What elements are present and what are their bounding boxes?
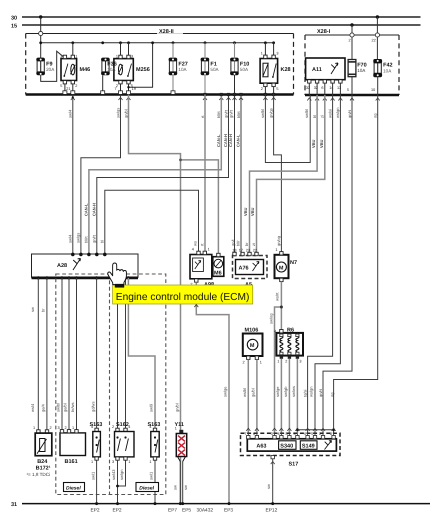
wires Y11 to EP7/EP5 — [179, 462, 181, 504]
svg-text:21: 21 — [66, 87, 70, 91]
fuse F36 — [102, 60, 109, 73]
svg-text:6: 6 — [253, 432, 255, 436]
wire K28 pin5 to N7 — [274, 95, 282, 252]
svg-text:31: 31 — [11, 502, 17, 508]
relay M256 — [114, 59, 133, 81]
svg-text:ws/gn: ws/gn — [335, 108, 340, 118]
svg-text:A28: A28 — [57, 263, 67, 269]
heater coil at 289.4 — [288, 336, 291, 352]
svg-text:sw/bl: sw/bl — [304, 109, 309, 118]
glow plug block S17 outer — [241, 433, 341, 455]
S17 pin 8 — [288, 436, 291, 439]
wire to S163b pin4 (jog) — [128, 278, 155, 432]
svg-text:3: 3 — [299, 360, 301, 364]
wire F36 out to edge — [102, 75, 104, 94]
svg-text:3: 3 — [58, 426, 60, 430]
svg-text:7: 7 — [244, 432, 246, 436]
svg-text:6: 6 — [294, 432, 296, 436]
svg-text:gn/rt: gn/rt — [92, 234, 97, 243]
svg-text:1: 1 — [260, 361, 262, 365]
junction on 15 for X28-I — [350, 23, 353, 26]
wire to B24 pin1 — [37, 278, 39, 430]
sensor B161 — [60, 433, 86, 456]
svg-text:S340: S340 — [280, 443, 293, 449]
svg-text:ws/gn: ws/gn — [309, 387, 314, 397]
wires M256 pins 2,5 to edge — [120, 84, 122, 95]
svg-text:1: 1 — [72, 426, 74, 430]
svg-text:2: 2 — [50, 426, 52, 430]
svg-text:50A: 50A — [240, 67, 249, 72]
wire sw/4 X28-II:21 to A28 — [72, 95, 74, 255]
svg-text:1: 1 — [277, 360, 279, 364]
svg-text:22: 22 — [253, 248, 257, 252]
motor M6 — [213, 257, 224, 277]
svg-text:EP2: EP2 — [91, 508, 100, 514]
svg-text:K28: K28 — [281, 67, 291, 73]
svg-text:sw/gs: sw/gs — [76, 233, 81, 243]
svg-text:7: 7 — [115, 87, 117, 91]
svg-text:gn/rt: gn/rt — [347, 109, 352, 118]
wires to B161 pins 3,2,1 — [61, 278, 63, 431]
wire CAN-L to A5 pin17 — [240, 95, 242, 256]
svg-text:3: 3 — [276, 51, 278, 55]
svg-text:EP2: EP2 — [113, 508, 122, 514]
svg-text:X28-I: X28-I — [317, 29, 331, 35]
wire CAN-H to A28 — [97, 95, 229, 255]
svg-text:EP12: EP12 — [266, 508, 278, 514]
wire og F42 to S17 — [334, 95, 378, 433]
svg-text:sw: sw — [183, 485, 188, 490]
svg-text:A76: A76 — [239, 266, 249, 272]
hand cursor — [108, 263, 127, 288]
S17 pin 4 — [306, 436, 309, 439]
svg-text:A63: A63 — [256, 444, 266, 450]
S17 pin 6 — [296, 436, 299, 439]
svg-text:sw/ge: sw/ge — [223, 386, 228, 397]
wire 15 feed to F70 — [351, 25, 353, 33]
wire to S163a pin4 — [96, 278, 98, 432]
svg-text:tq/si: tq/si — [303, 390, 308, 397]
svg-text:5: 5 — [347, 88, 349, 92]
svg-text:10A: 10A — [383, 68, 392, 73]
svg-text:gn/gs: gn/gs — [268, 108, 273, 118]
svg-text:3: 3 — [60, 55, 62, 59]
temperature sensor B24/B172 — [37, 430, 40, 433]
A11 pin 13 — [339, 80, 342, 83]
svg-text:EP7: EP7 — [168, 508, 177, 514]
svg-text:2: 2 — [285, 360, 287, 364]
svg-text:bl: bl — [312, 115, 317, 118]
wires K28 pins 2,5 to edge — [264, 87, 266, 95]
svg-text:bl/rt: bl/rt — [236, 110, 241, 118]
bridge wire rail to M256 pin5 — [129, 43, 153, 87]
svg-text:sw/4: sw/4 — [68, 234, 73, 243]
svg-text:2: 2 — [75, 84, 77, 88]
svg-text:M: M — [279, 265, 284, 271]
fuse F9 — [37, 60, 44, 73]
svg-text:A11: A11 — [312, 67, 322, 73]
svg-text:og: og — [330, 393, 335, 397]
svg-text:4: 4 — [274, 330, 276, 334]
S17 bottom pin — [271, 456, 274, 459]
svg-text:50A: 50A — [210, 67, 219, 72]
svg-text:30: 30 — [11, 16, 17, 22]
relay K28 — [264, 43, 266, 55]
svg-text:17: 17 — [239, 248, 243, 252]
svg-text:8: 8 — [330, 432, 332, 436]
svg-text:1: 1 — [116, 55, 118, 59]
wire S17 to EP12 — [272, 459, 274, 504]
svg-text:1: 1 — [75, 55, 77, 59]
switch S340 — [279, 441, 296, 450]
svg-text:ws: ws — [193, 241, 198, 246]
tooltip: Engine control module (ECM) — [113, 285, 253, 304]
svg-text:CAN-L: CAN-L — [216, 134, 221, 147]
Diesel label 1 — [64, 483, 85, 492]
wire N7 down with branch — [280, 282, 282, 333]
svg-text:Diesel: Diesel — [66, 486, 81, 492]
svg-text:10A: 10A — [357, 68, 366, 73]
svg-text:VBU: VBU — [319, 139, 324, 148]
wire M46 pin1 feed — [72, 43, 74, 55]
fuse F1 — [201, 60, 208, 73]
svg-text:1: 1 — [275, 248, 277, 252]
switch S149 — [300, 441, 317, 450]
connector chevrons below X28-II — [71, 97, 75, 100]
svg-text:2: 2 — [65, 426, 67, 430]
svg-text:ws/bl: ws/bl — [242, 388, 247, 397]
svg-text:gn/bl: gn/bl — [174, 403, 179, 412]
wire A98 pin2 to ground EP3 — [196, 282, 229, 503]
svg-text:bl: bl — [100, 240, 105, 243]
svg-text:N7: N7 — [290, 260, 297, 266]
svg-text:sw/og: sw/og — [268, 314, 273, 324]
svg-text:Diesel: Diesel — [139, 486, 154, 492]
svg-text:bl/rt: bl/rt — [216, 110, 221, 118]
svg-text:2: 2 — [243, 361, 245, 365]
svg-text:gn/rt: gn/rt — [318, 388, 323, 397]
wire ws/si A11 to S17 — [308, 95, 333, 433]
svg-text:sw/4: sw/4 — [68, 109, 73, 118]
svg-text:Engine control module (ECM): Engine control module (ECM) — [116, 292, 250, 303]
svg-text:23: 23 — [246, 248, 250, 252]
wire gn/rt F70 to S17 — [323, 95, 352, 433]
wire F9 out to relay M46 pin 3 — [41, 51, 65, 81]
wires R6 to S17 — [280, 359, 282, 434]
control unit A11 — [306, 58, 345, 80]
svg-text:sw/gs: sw/gs — [115, 108, 120, 118]
connector chevrons below X28-I — [307, 98, 311, 101]
svg-text:1: 1 — [91, 460, 93, 464]
wire CAN-H to A5 pin18 — [234, 95, 236, 256]
svg-text:M6: M6 — [214, 271, 222, 277]
svg-text:sw/1: sw/1 — [149, 471, 154, 480]
svg-text:4: 4 — [128, 425, 130, 429]
svg-text:bl/r: bl/r — [236, 240, 241, 246]
A11 pin 6 — [323, 80, 326, 83]
wires S162 to EP2 — [117, 460, 119, 503]
A11 pin 32 — [308, 80, 311, 83]
fuse F42 — [374, 62, 381, 75]
A11 pin 32 — [315, 80, 318, 83]
svg-text:18: 18 — [232, 248, 236, 252]
wire VBU A11 to A5 pin22 — [257, 95, 325, 256]
Diesel label 2 — [136, 483, 159, 492]
svg-text:gn/og: gn/og — [276, 236, 281, 246]
svg-text:10: 10 — [371, 88, 375, 92]
wires M106 to S17 — [247, 359, 249, 433]
svg-text:1: 1 — [261, 51, 263, 55]
module A5 (A76) — [233, 256, 268, 279]
svg-text:S162: S162 — [116, 422, 129, 428]
svg-text:10A: 10A — [107, 67, 116, 72]
svg-text:X28-II: X28-II — [159, 29, 174, 35]
svg-text:bl/rt: bl/rt — [84, 235, 89, 243]
svg-text:1: 1 — [175, 427, 177, 431]
svg-text:sw: sw — [173, 485, 178, 490]
wire 30 feed to X28-II — [40, 17, 42, 31]
fuse F27 — [169, 60, 176, 73]
S17 pin 8 — [332, 436, 335, 439]
svg-text:5: 5 — [60, 84, 62, 88]
S17 pin 5 — [313, 436, 316, 439]
S17 pin 2 — [321, 436, 324, 439]
svg-text:sw/gb: sw/gb — [283, 386, 288, 397]
svg-text:5: 5 — [311, 432, 313, 436]
wires to S162 pins — [117, 278, 119, 431]
svg-text:2: 2 — [261, 87, 263, 91]
wire 30 feed to F42 — [376, 17, 378, 33]
svg-text:B161: B161 — [65, 459, 78, 465]
svg-text:sw/43: sw/43 — [111, 469, 116, 480]
fuse F10 — [231, 60, 238, 73]
ECM connector A28 — [32, 254, 139, 277]
svg-text:ws/si: ws/si — [327, 109, 332, 118]
svg-text:3: 3 — [131, 55, 133, 59]
svg-text:4: 4 — [149, 425, 151, 429]
svg-text:1: 1 — [149, 460, 151, 464]
svg-text:ge/bl: ge/bl — [63, 403, 68, 412]
svg-text:S17: S17 — [289, 462, 299, 468]
svg-text:VBU: VBU — [250, 207, 255, 216]
svg-text:1: 1 — [33, 426, 35, 430]
svg-text:¹= 1,8 TDCi: ¹= 1,8 TDCi — [27, 472, 51, 477]
valve motor N7 — [275, 255, 289, 278]
svg-text:30A432: 30A432 — [197, 508, 214, 514]
svg-text:EP3: EP3 — [224, 508, 233, 514]
svg-text:EP5: EP5 — [182, 508, 191, 514]
svg-text:M256: M256 — [136, 67, 150, 73]
svg-text:4: 4 — [278, 432, 280, 436]
wire M46 pin2 out (terminal 21) — [72, 84, 74, 95]
svg-text:ge/bl: ge/bl — [250, 388, 255, 397]
svg-text:3: 3 — [112, 460, 114, 464]
svg-text:VBU: VBU — [311, 139, 316, 148]
svg-text:sw/gn: sw/gn — [119, 470, 124, 480]
wire rt F1 to A98 pin1 — [204, 95, 206, 253]
svg-text:4: 4 — [91, 425, 93, 429]
feed rail inside X28-II — [41, 42, 274, 44]
svg-text:sw/ws: sw/ws — [291, 386, 296, 397]
heater coil at 297.4 — [296, 336, 299, 352]
fuse box X28-I — [305, 34, 399, 36]
link wire above S17 — [297, 429, 333, 431]
wire ws/gn A11 to S17 — [315, 95, 340, 433]
svg-text:22: 22 — [372, 39, 376, 43]
svg-text:4: 4 — [192, 247, 194, 251]
svg-text:1: 1 — [128, 460, 130, 464]
svg-text:zi: zi — [251, 243, 256, 246]
svg-text:ws/rt: ws/rt — [275, 292, 280, 301]
wire CAN-L gray to A28 — [89, 95, 221, 255]
svg-text:sw/1: sw/1 — [90, 471, 95, 480]
junction on 30 for X28-I — [376, 15, 379, 18]
svg-text:19: 19 — [132, 87, 136, 91]
wire M46 pin5 to edge — [64, 84, 66, 91]
S17 pin 6 — [255, 436, 258, 439]
fuse box X28-II — [26, 33, 294, 35]
svg-text:8: 8 — [286, 432, 288, 436]
svg-text:2: 2 — [319, 432, 321, 436]
svg-text:1: 1 — [208, 247, 210, 251]
svg-text:gn/bl: gn/bl — [123, 109, 128, 118]
wire sw/gs M256 to A28 — [81, 95, 121, 255]
relay M46 — [61, 59, 77, 81]
S17 pin 7 — [247, 436, 250, 439]
svg-text:sw: sw — [266, 484, 271, 489]
fuse F70 — [348, 60, 356, 77]
svg-text:10A: 10A — [178, 67, 187, 72]
wires M256 pins 1,3 feed — [120, 43, 122, 55]
wire K28 pin2 to A11 pin32 — [265, 95, 310, 163]
svg-text:M46: M46 — [80, 67, 91, 73]
svg-text:B24: B24 — [37, 459, 48, 465]
svg-text:5: 5 — [276, 87, 278, 91]
wire gn/bl M256 to M6 and Y11 — [129, 95, 181, 504]
dashed enclosure (diesel variants) — [56, 274, 166, 495]
control module A98 — [190, 255, 212, 279]
svg-text:gn/rt: gn/rt — [228, 109, 233, 118]
heater coil at 281.4 — [280, 336, 283, 352]
svg-text:2: 2 — [349, 39, 351, 43]
junction on 30 for X28-II — [39, 15, 42, 18]
svg-text:sw: sw — [30, 307, 35, 312]
svg-text:S149: S149 — [302, 443, 315, 449]
svg-text:20A: 20A — [46, 67, 55, 72]
svg-text:zi: zi — [320, 115, 325, 118]
svg-text:sw/bl: sw/bl — [260, 109, 265, 118]
S17 pin 4 — [280, 436, 283, 439]
svg-text:sw/ge: sw/ge — [275, 386, 280, 397]
svg-text:B172¹: B172¹ — [36, 466, 51, 472]
wire VBU A11 to A5 pin23 — [250, 95, 318, 256]
A98 pin2 bottom — [195, 279, 198, 282]
svg-text:ws/4: ws/4 — [30, 403, 35, 412]
svg-text:4: 4 — [304, 432, 306, 436]
S17 pin 3 — [273, 436, 276, 439]
wire to B24 pin2 — [46, 278, 48, 430]
svg-text:ge/4: ge/4 — [41, 403, 46, 412]
svg-text:VBU: VBU — [243, 207, 248, 216]
svg-text:sw/bl: sw/bl — [56, 403, 61, 412]
svg-text:CAN-L: CAN-L — [236, 134, 241, 147]
svg-text:sw/9: sw/9 — [149, 403, 154, 412]
svg-text:CAN-H: CAN-H — [91, 203, 96, 216]
svg-text:M: M — [250, 343, 255, 349]
wire bl A28 to A98 pin4 — [105, 190, 199, 254]
svg-text:3: 3 — [271, 432, 273, 436]
svg-text:gd/ws: gd/ws — [90, 402, 95, 412]
svg-text:6: 6 — [321, 86, 323, 90]
svg-text:CAN-L: CAN-L — [84, 203, 89, 216]
A11 pin 14 — [331, 80, 334, 83]
wire S163a to EP2 — [96, 460, 98, 503]
svg-text:br/ws: br/ws — [70, 402, 75, 412]
svg-text:15: 15 — [11, 24, 17, 30]
svg-text:og: og — [373, 114, 378, 118]
svg-text:2: 2 — [112, 425, 114, 429]
